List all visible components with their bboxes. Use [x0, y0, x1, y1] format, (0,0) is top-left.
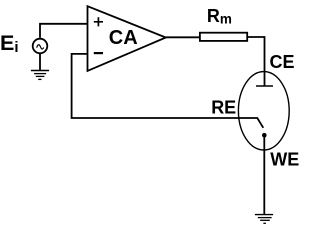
- wire feedback from - input to RE electrode: [72, 54, 264, 128]
- svg-text:CE: CE: [270, 52, 295, 72]
- ground (left, under source): [31, 53, 49, 79]
- wire op-amp output to resistor: [166, 36, 200, 38]
- junction dot (WE tip): [262, 133, 267, 138]
- electrode CE (plate bar): [256, 85, 273, 87]
- wire source to op-amp + input: [40, 24, 88, 38]
- wire WE to ground: [263, 135, 265, 214]
- wire resistor to CE electrode: [247, 37, 264, 86]
- cell (ellipse): [238, 72, 289, 150]
- resistor Rm: [200, 33, 247, 41]
- ground (right, under WE): [255, 215, 273, 224]
- svg-text:WE: WE: [270, 150, 299, 170]
- svg-text:RE: RE: [211, 98, 236, 118]
- svg-text:CA: CA: [109, 27, 138, 49]
- op-amp U1 (CA): [88, 6, 166, 71]
- source Ei (AC source circle with sine): [33, 39, 48, 54]
